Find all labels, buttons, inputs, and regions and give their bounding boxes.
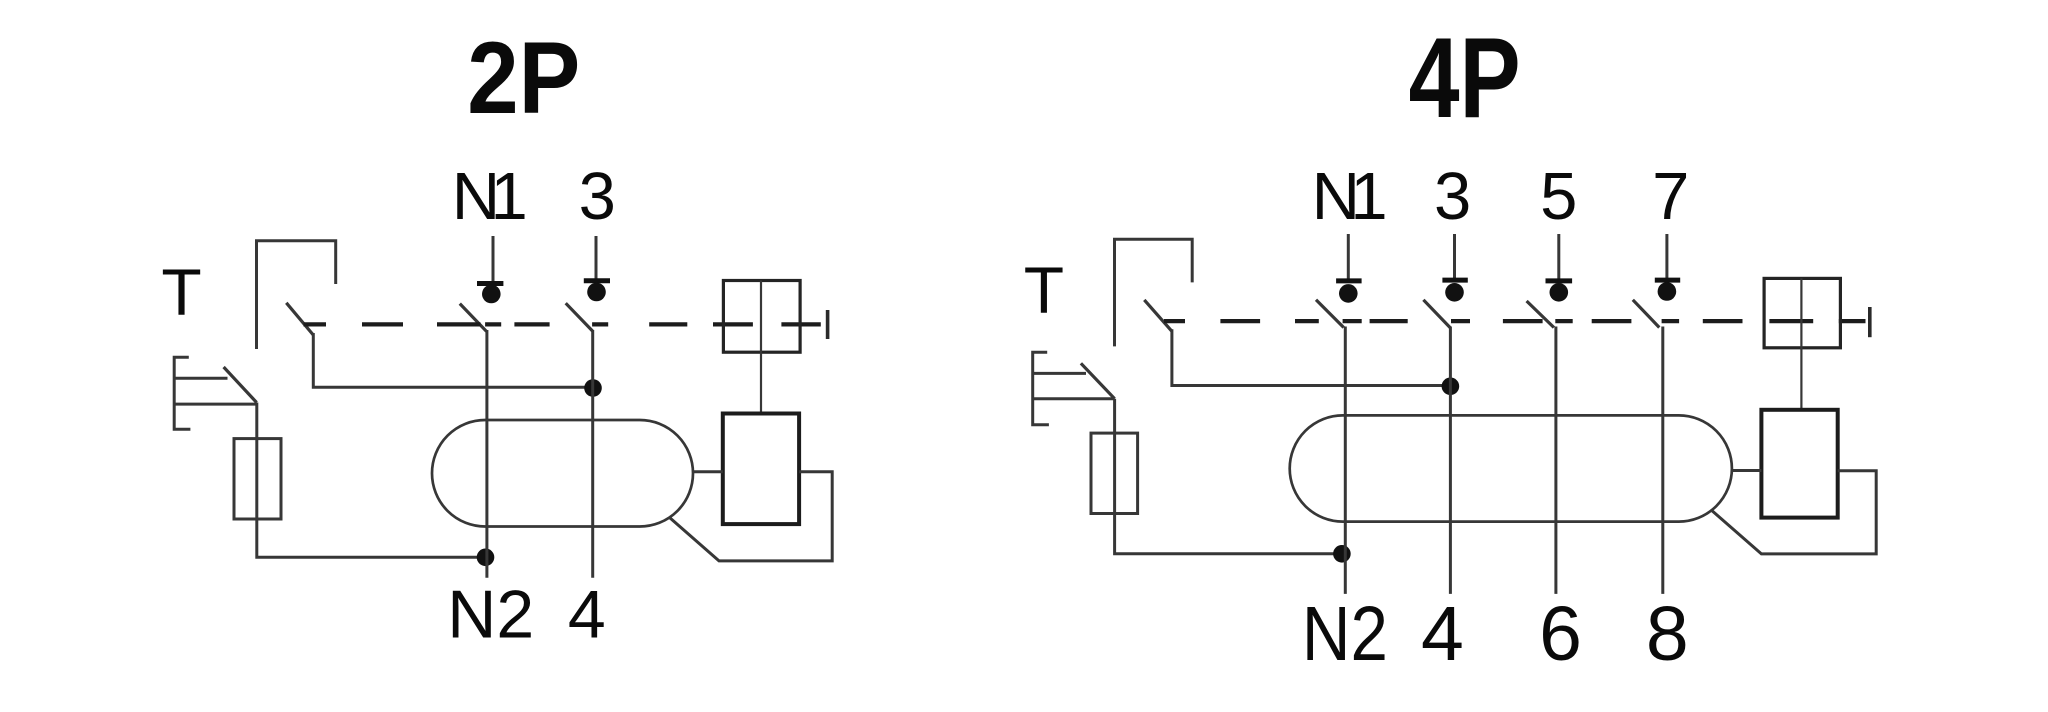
terminal 5 bar (4P) [1546,278,1573,283]
toroid core (4P) [1290,415,1732,521]
N1 fixed contact dot (4P) [1339,284,1358,303]
conductor N1-N2 (4P) [1344,327,1347,594]
svg-text:4P: 4P [1409,15,1521,142]
terminal 3 bar [584,278,610,283]
terminal N1 lead (4P) [1347,234,1350,283]
terminal 5 contact dot (4P) [1550,283,1569,302]
terminal 3 fixed contact dot [587,283,606,302]
wire: aux pole to conductor 4 (4P) [1172,329,1451,385]
wire: staple loop from test contact up to aux pole fixed contact [257,241,336,349]
test button pusher rod [174,377,227,380]
terminal 3 lead [595,236,598,283]
toroid core (current transformer) [432,420,693,527]
wire: staple loop (4P) [1115,239,1193,346]
actuator middle bar (4P) [1800,278,1802,347]
wire: test button lower lead [174,403,256,406]
linkage end stop bar (4P) [1868,307,1872,337]
terminal 7 contact dot (4P) [1658,282,1677,301]
svg-text:3: 3 [579,159,616,234]
N pole switch blade [460,304,487,332]
svg-text:4: 4 [568,577,606,653]
svg-text:T: T [1024,253,1064,327]
svg-text:6: 6 [1539,591,1582,677]
mechanical linkage dashed line (4P) [1164,319,1866,323]
aux switch blade (4P) [1144,300,1172,331]
svg-text:N2: N2 [1302,591,1388,677]
N1 fixed contact dot [482,285,501,304]
svg-text:2P: 2P [467,21,580,135]
junction dot on conductor N2 [477,549,495,567]
terminal 5 lead (4P) [1557,234,1560,283]
wire: toroid secondary to coil (4P) [1732,469,1762,472]
mechanical linkage dashed line (2P) [304,322,821,326]
trip actuator square (4P) [1764,278,1840,347]
pole 7 blade (4P) [1633,300,1660,328]
test button pusher rod (4P) [1033,372,1086,375]
svg-text:8: 8 [1646,591,1689,677]
terminal 3 lead (4P) [1453,234,1456,282]
pole 3 switch blade [566,303,593,331]
test resistor R [234,439,281,519]
conductor 3-4 (4P) [1449,327,1452,594]
terminal 3 bar (4P) [1442,278,1467,283]
aux switch blade [286,303,313,335]
junction dot on conductor N2 (4P) [1333,545,1351,563]
terminal N1 bar (4P) [1336,278,1362,283]
svg-text:N2: N2 [447,577,534,653]
N pole blade (4P) [1316,300,1344,328]
wire: coil return loop to toroid [670,472,833,561]
terminal 3 contact dot (4P) [1445,283,1464,302]
linkage end stop bar [826,310,830,339]
svg-text:3: 3 [1434,159,1471,234]
junction dot on conductor 4 [584,379,602,397]
wire: coil return loop to toroid (4P) [1712,471,1877,554]
svg-text:7: 7 [1652,159,1689,234]
conductor 7-8 (4P) [1661,327,1664,594]
svg-text:N1: N1 [1312,159,1388,234]
terminal N1 bar [477,281,503,286]
trip coil (4P) [1761,410,1837,518]
conductor N1-N2 through toroid [485,330,488,578]
pole 5 blade (4P) [1527,301,1554,328]
junction dot on conductor 4 (4P) [1442,378,1460,396]
wire: toroid secondary to coil [693,470,723,473]
test resistor R (4P) [1091,433,1138,513]
wire: actuator to trip coil [760,352,762,413]
test button contact blade (4P) [1081,363,1115,398]
test button bracket [174,357,190,429]
test button bracket (4P) [1033,352,1049,425]
trip coil [723,414,799,525]
terminal N1 lead [492,236,495,286]
conductor 5-6 (4P) [1554,327,1557,594]
trip actuator square [723,281,800,353]
svg-text:4: 4 [1421,591,1464,677]
wire: test button lower lead (4P) [1033,397,1115,400]
svg-text:T: T [161,255,201,329]
wire: actuator to trip coil (4P) [1800,348,1802,410]
wire: aux pole down and right to conductor 4 [313,333,593,387]
actuator middle bar [760,281,762,353]
pole 3 blade (4P) [1423,300,1450,328]
terminal 7 lead (4P) [1665,234,1668,282]
svg-text:5: 5 [1540,159,1577,234]
conductor 3-4 through toroid [591,330,594,578]
test button contact blade [224,367,257,403]
wire: test blade through resistor to N conductor (4P) [1115,399,1342,554]
wire: test blade pivot through resistor down to N conductor [257,403,486,558]
svg-text:N1: N1 [452,159,528,234]
terminal 7 bar (4P) [1655,278,1680,283]
